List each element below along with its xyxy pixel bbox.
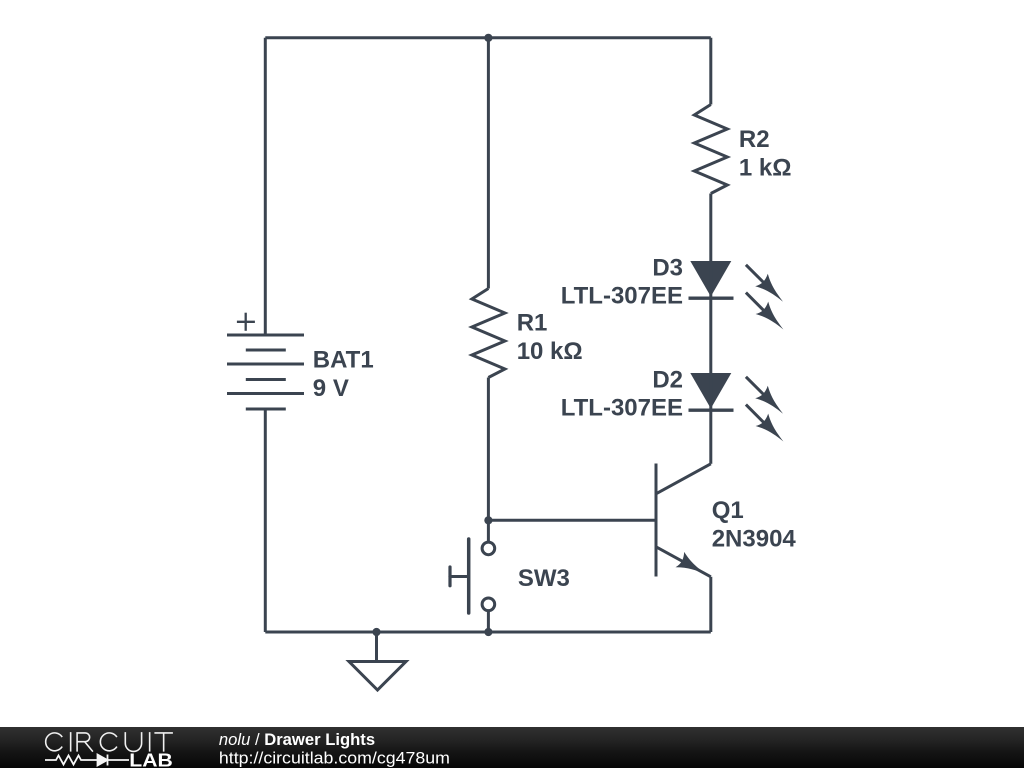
wire middle (R1 to base junction)	[487, 378, 490, 521]
node ground junction	[372, 628, 380, 636]
svg-text:SW3: SW3	[518, 565, 570, 592]
node base junction	[484, 516, 492, 524]
LED D2	[689, 373, 790, 448]
wire left rail lower (battery to bottom rail)	[264, 409, 267, 632]
transistor Q1	[656, 464, 711, 583]
svg-text:BAT1: BAT1	[313, 347, 374, 374]
battery plus sign	[237, 313, 255, 331]
wire middle rail upper (top rail to R1)	[487, 38, 490, 289]
wire bottom rail	[265, 631, 711, 634]
LED D3	[689, 261, 790, 336]
wire top rail	[265, 36, 711, 39]
svg-text:nolu / Drawer Lights: nolu / Drawer Lights	[219, 731, 375, 749]
svg-text:9 V: 9 V	[313, 375, 349, 402]
svg-text:D3: D3	[652, 254, 683, 281]
ground	[349, 632, 406, 690]
svg-text:D2: D2	[652, 366, 683, 393]
svg-text:10 kΩ: 10 kΩ	[517, 338, 583, 365]
svg-text:R1: R1	[517, 310, 548, 337]
wire base (junction to Q1 base)	[488, 519, 656, 522]
svg-text:1 kΩ: 1 kΩ	[739, 155, 792, 182]
wire right rail upper (top rail to R2)	[709, 38, 712, 105]
svg-text:Q1: Q1	[712, 497, 744, 524]
svg-text:LAB: LAB	[129, 750, 173, 768]
svg-text:http://circuitlab.com/cg478um: http://circuitlab.com/cg478um	[219, 748, 450, 767]
switch SW3	[450, 539, 495, 613]
wire Q1 emitter to bottom rail	[709, 577, 712, 632]
CircuitLab logo schematic squiggle	[45, 755, 129, 766]
footer bar	[0, 727, 1024, 768]
node switch bottom junction	[484, 628, 492, 636]
svg-text:LTL-307EE: LTL-307EE	[561, 395, 683, 422]
wire junction to switch	[487, 520, 490, 542]
wire left rail upper (top rail to battery)	[264, 38, 267, 335]
CircuitLab logo wordmark CIRCUIT (drawn thin letters, y offset -720)	[46, 732, 173, 752]
svg-text:R2: R2	[739, 126, 770, 153]
svg-text:2N3904: 2N3904	[712, 526, 797, 553]
svg-text:LTL-307EE: LTL-307EE	[561, 283, 683, 310]
resistor R1	[472, 289, 505, 378]
node top junction	[484, 34, 492, 42]
wire switch to bottom rail	[487, 612, 490, 632]
wire D3 to D2	[709, 298, 712, 373]
wire R2 to D3	[709, 194, 712, 262]
resistor R2	[694, 105, 727, 194]
wire D2 to Q1 collector	[709, 410, 712, 464]
battery BAT1	[227, 335, 304, 409]
